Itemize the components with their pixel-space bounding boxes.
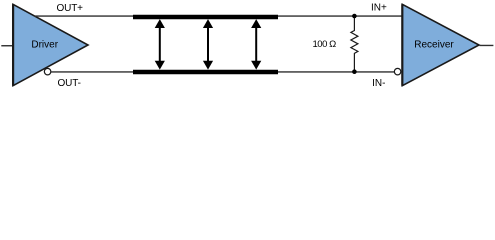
receiver U2 [402,4,479,85]
junction node top [352,14,357,19]
wire OUT+ to IN+ (top line) [34,15,402,17]
driver U1 [13,4,88,85]
svg-text:OUT-: OUT- [58,78,81,89]
driver U1 left edge [12,4,14,86]
resistor R1 100 ohm [351,16,358,72]
svg-text:IN+: IN+ [371,2,387,13]
svg-text:100 Ω: 100 Ω [312,39,336,50]
inverting bubble receiver IN- [394,68,401,75]
svg-text:Driver: Driver [31,40,58,51]
field arrow 1 (double headed) [155,19,165,70]
field arrow 3 (double headed) [251,19,261,70]
wire driver input [1,45,13,47]
receiver U2 left edge [401,4,403,86]
field arrow 2 (double headed) [203,19,213,70]
svg-text:IN-: IN- [372,78,385,89]
inverting bubble driver OUT- [44,68,51,75]
wire receiver output [480,44,494,46]
transmission line top conductor [133,15,278,19]
wire OUT- to IN- (bottom line) [51,71,394,73]
junction node bottom [352,69,357,74]
transmission line bottom conductor [133,70,278,74]
svg-text:OUT+: OUT+ [57,3,84,14]
svg-text:Receiver: Receiver [414,40,454,51]
